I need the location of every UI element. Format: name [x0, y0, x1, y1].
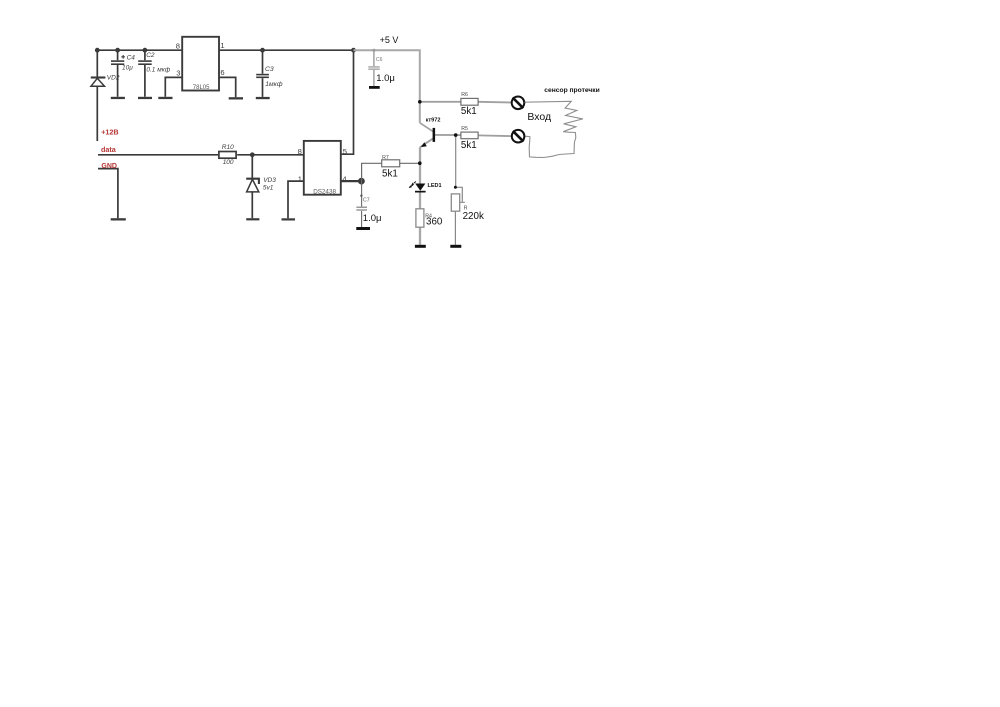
svg-text:0.1 мкф: 0.1 мкф [146, 66, 170, 73]
svg-text:100: 100 [223, 159, 234, 166]
svg-text:1мкф: 1мкф [265, 81, 283, 88]
svg-text:78L05: 78L05 [193, 85, 210, 91]
svg-text:C7: C7 [363, 198, 370, 204]
svg-text:R7: R7 [382, 155, 389, 161]
svg-text:5k1: 5k1 [461, 140, 477, 151]
svg-text:GND: GND [101, 163, 117, 170]
svg-text:DS2438: DS2438 [313, 189, 336, 196]
svg-text:4: 4 [342, 175, 346, 184]
svg-text:3: 3 [176, 69, 180, 78]
svg-text:360: 360 [426, 217, 443, 228]
svg-text:R5: R5 [461, 126, 468, 132]
svg-text:LED1: LED1 [428, 183, 442, 189]
svg-text:+12B: +12B [101, 128, 118, 137]
svg-text:5: 5 [343, 147, 347, 156]
svg-text:1.0μ: 1.0μ [363, 213, 382, 224]
svg-text:1: 1 [298, 175, 302, 184]
svg-text:Вход: Вход [527, 111, 551, 123]
svg-text:8: 8 [298, 147, 302, 156]
svg-text:1.0μ: 1.0μ [376, 73, 395, 84]
svg-text:VD2: VD2 [107, 75, 120, 82]
svg-text:10μ: 10μ [122, 64, 133, 71]
svg-text:data: data [101, 145, 117, 154]
svg-text:C2: C2 [146, 52, 155, 59]
svg-text:5k1: 5k1 [461, 106, 477, 117]
svg-text:сенсор протечки: сенсор протечки [544, 87, 599, 94]
svg-text:R6: R6 [461, 92, 468, 98]
svg-text:R10: R10 [222, 144, 234, 151]
svg-text:1: 1 [220, 41, 224, 50]
svg-text:8: 8 [176, 42, 180, 51]
svg-text:C3: C3 [265, 66, 274, 73]
svg-text:5k1: 5k1 [382, 169, 398, 180]
svg-text:кт972: кт972 [426, 118, 441, 124]
svg-text:6: 6 [220, 68, 224, 77]
svg-text:C4: C4 [127, 55, 136, 62]
svg-text:220k: 220k [463, 211, 484, 222]
svg-text:C6: C6 [376, 57, 383, 63]
svg-text:5v1: 5v1 [263, 185, 274, 192]
svg-text:VD3: VD3 [263, 177, 276, 184]
svg-text:+5 V: +5 V [380, 35, 399, 45]
